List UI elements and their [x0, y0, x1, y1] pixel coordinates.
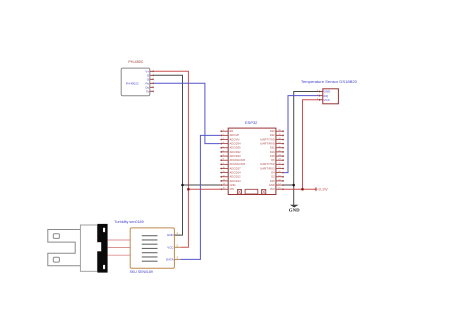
wire red 3.3V net: ESP32 3V3 / temp VCC: [284, 188, 316, 190]
svg-text:5: 5: [223, 146, 224, 148]
svg-text:9: 9: [223, 163, 224, 165]
svg-text:ADC/D32: ADC/D32: [230, 150, 242, 154]
svg-text:PH-450C: PH-450C: [128, 60, 144, 64]
svg-text:D22: D22: [270, 133, 275, 137]
svg-text:15: 15: [223, 188, 225, 190]
svg-text:D15: D15: [270, 179, 275, 183]
svg-text:6: 6: [223, 150, 224, 152]
svg-text:UART/TX0: UART/TX0: [260, 137, 275, 141]
svg-text:14: 14: [223, 184, 225, 186]
svg-text:22: 22: [278, 163, 280, 165]
node junction black GND2: [292, 184, 295, 187]
svg-text:ADC/D33: ADC/D33: [230, 154, 242, 158]
wire blue turbidity DATA to ESP32 VP: [180, 135, 220, 259]
ground symbol GND: [289, 205, 300, 213]
svg-text:D18: D18: [270, 154, 275, 158]
wire red branch to ESP32 VIN: [188, 188, 220, 190]
svg-text:UART/RX2: UART/RX2: [260, 166, 275, 170]
wire blue temp DQ to ESP32 D4: [284, 96, 319, 173]
svg-text:ADC/D13: ADC/D13: [230, 179, 242, 183]
svg-text:29: 29: [278, 134, 280, 136]
svg-text:28: 28: [278, 138, 280, 140]
svg-text:VCC: VCC: [324, 98, 331, 102]
svg-text:To: To: [146, 89, 150, 93]
svg-text:UART/TX2: UART/TX2: [260, 162, 275, 166]
svg-text:11: 11: [223, 171, 225, 173]
svg-text:27: 27: [278, 142, 280, 144]
node junction red VIN: [187, 188, 190, 191]
svg-text:13: 13: [223, 179, 225, 181]
svg-text:21: 21: [278, 167, 280, 169]
svg-text:12: 12: [223, 175, 225, 177]
svg-text:3V3: 3V3: [270, 187, 275, 191]
svg-text:SKU SEN0189: SKU SEN0189: [130, 270, 153, 274]
svg-text:ADC/VN: ADC/VN: [230, 137, 240, 141]
svg-text:20: 20: [278, 171, 280, 173]
svg-text:7: 7: [223, 155, 224, 157]
svg-text:8: 8: [223, 159, 224, 161]
svg-text:VCC: VCC: [167, 245, 174, 249]
svg-text:DATA: DATA: [166, 258, 174, 262]
svg-text:D19: D19: [270, 150, 275, 154]
power symbol 3.3V: [314, 187, 328, 191]
svg-text:ADC/VP: ADC/VP: [230, 133, 240, 137]
svg-text:3: 3: [223, 138, 224, 140]
svg-text:D4: D4: [271, 170, 275, 174]
svg-text:23: 23: [278, 159, 280, 161]
turbidity board SKU SEN0189: [114, 220, 180, 274]
svg-text:18: 18: [278, 179, 280, 181]
svg-text:16: 16: [278, 188, 280, 190]
svg-text:ADC/D27: ADC/D27: [230, 166, 242, 170]
turbidity sensor body: [80, 225, 97, 271]
svg-text:ADC/D35: ADC/D35: [230, 146, 242, 150]
node junction red 3V3: [301, 188, 304, 191]
svg-text:30: 30: [278, 130, 280, 132]
svg-text:D21: D21: [270, 146, 275, 150]
svg-text:25: 25: [278, 150, 280, 152]
svg-text:D5: D5: [271, 158, 275, 162]
svg-text:ADC/D14: ADC/D14: [230, 170, 242, 174]
svg-text:Turbidity sen0189: Turbidity sen0189: [114, 220, 144, 224]
svg-text:ESP32: ESP32: [245, 120, 258, 125]
svg-text:GND: GND: [289, 208, 300, 213]
wire blue PH Po to ESP32 D34: [154, 83, 221, 143]
wire black temp GND to ESP32 GND and ground: [294, 92, 319, 205]
svg-text:ADC/DAC/D26: ADC/DAC/D26: [230, 162, 246, 166]
svg-text:3.3V: 3.3V: [318, 188, 328, 192]
svg-text:17: 17: [278, 184, 280, 186]
svg-text:GND: GND: [167, 233, 175, 237]
svg-text:26: 26: [278, 146, 280, 148]
svg-text:GND: GND: [269, 183, 275, 187]
svg-text:D23: D23: [270, 129, 275, 133]
wire net GND (black): PH G / ESP32 GND / turbidity GND: [154, 75, 183, 235]
wire black branch to ESP32 GND: [183, 184, 221, 186]
turbidity sensor black connector: [97, 224, 108, 273]
svg-text:VIN: VIN: [230, 187, 234, 191]
svg-text:ADC/DAC/D25: ADC/DAC/D25: [230, 158, 246, 162]
svg-text:19: 19: [278, 175, 280, 177]
sensor module PH-450C: [121, 60, 153, 96]
svg-text:PH-4502C: PH-4502C: [126, 81, 140, 85]
svg-text:1: 1: [223, 130, 224, 132]
svg-text:EN: EN: [230, 129, 234, 133]
svg-text:GND: GND: [230, 183, 236, 187]
temperature sensor DS18B20: [301, 80, 357, 104]
microcontroller ESP32: [220, 120, 284, 195]
svg-text:24: 24: [278, 155, 280, 157]
svg-text:UART/RX0: UART/RX0: [260, 141, 275, 145]
wire connector to SEN0189 board (3 leads): [108, 239, 131, 241]
svg-text:2: 2: [223, 134, 224, 136]
wire net VIN (red): PH V+ / ESP32 VIN / turbidity VCC: [154, 71, 189, 247]
svg-text:Temperature Sensor DS18B20: Temperature Sensor DS18B20: [301, 80, 357, 84]
node junction black GND: [181, 184, 184, 187]
svg-text:ADC/D12: ADC/D12: [230, 175, 242, 179]
svg-text:D2: D2: [271, 175, 275, 179]
turbidity sensor probe fork: [48, 230, 81, 266]
svg-text:ADC/D34: ADC/D34: [230, 141, 242, 145]
svg-text:10: 10: [223, 167, 225, 169]
svg-text:4: 4: [223, 142, 224, 144]
